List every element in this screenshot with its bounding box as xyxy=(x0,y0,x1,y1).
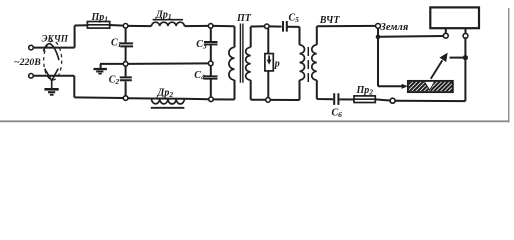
wire node to C5 xyxy=(269,25,282,27)
terminal bottom-left xyxy=(29,74,34,79)
box left terminal xyxy=(443,33,448,38)
inductor Dr2 xyxy=(152,98,185,100)
svg-text:Пр2: Пр2 xyxy=(356,85,374,97)
junction dot right xyxy=(463,55,468,60)
svg-text:С1: С1 xyxy=(111,38,121,50)
patient terminal xyxy=(390,98,395,103)
discharger lead bottom xyxy=(267,71,269,98)
shield dashed ellipse xyxy=(44,41,62,80)
svg-text:ВЧТ: ВЧТ xyxy=(319,15,341,26)
svg-text:ЭКЧП: ЭКЧП xyxy=(42,34,69,44)
electrode connector wire xyxy=(450,57,466,59)
svg-text:~220В: ~220В xyxy=(14,57,41,68)
svg-text:С6: С6 xyxy=(332,108,343,120)
white notch triangle edges xyxy=(425,82,435,90)
secondary bottom wire to VChT xyxy=(270,80,299,100)
box right terminal xyxy=(463,33,468,38)
bottom right bus xyxy=(395,38,465,101)
svg-text:С4: С4 xyxy=(194,70,205,82)
Zemlya stub down xyxy=(377,28,379,37)
wire junction to box left terminal xyxy=(378,35,443,38)
node top C3 xyxy=(208,24,213,29)
Dr1 core bar xyxy=(153,19,183,21)
ground mid xyxy=(94,68,107,75)
discharger r body xyxy=(265,54,273,71)
node bottom discharger xyxy=(266,98,271,103)
VChT secondary top lead / wire to Zemlya xyxy=(317,26,376,45)
PT core xyxy=(240,24,243,83)
twist crossing arc xyxy=(44,44,59,60)
VChT secondary winding xyxy=(312,45,317,80)
C4 capacitor xyxy=(210,66,212,76)
node bottom C4 xyxy=(209,97,214,102)
svg-text:Земля: Земля xyxy=(380,22,409,33)
wire junction down to electrode arm xyxy=(378,37,403,86)
mid wire C1C2 node to C3C4 node xyxy=(128,62,208,65)
wire node to Dr1 xyxy=(128,25,152,27)
inductor Dr1 xyxy=(152,22,185,26)
top bus left xyxy=(75,24,88,26)
capacitor C6 xyxy=(334,93,338,105)
PT secondary top lead xyxy=(251,26,265,47)
svg-text:Др1: Др1 xyxy=(155,10,172,22)
page edge lines xyxy=(508,8,510,123)
svg-text:р: р xyxy=(274,59,280,70)
node mid C1C2 xyxy=(123,62,128,67)
svg-text:ПТ: ПТ xyxy=(236,13,252,24)
VChT secondary bottom lead xyxy=(317,80,333,99)
fuse Pr1 xyxy=(87,22,109,29)
node top C1 xyxy=(123,24,128,29)
fuse Pr2 xyxy=(354,96,375,103)
mid wire to ground xyxy=(100,64,123,68)
arrowhead into electrode xyxy=(402,84,408,89)
C3 capacitor xyxy=(210,28,212,41)
node bottom C2 xyxy=(123,96,128,101)
wire C6 to Pr2 xyxy=(339,98,354,100)
VChT primary winding xyxy=(300,45,305,80)
apparatus box xyxy=(430,7,479,28)
transformer PT secondary winding xyxy=(246,47,251,80)
svg-text:Пр1: Пр1 xyxy=(91,12,109,24)
twist lower diagonals xyxy=(45,69,59,76)
electrode hatched block xyxy=(400,80,514,93)
wire top terminal to corner xyxy=(33,26,74,48)
node top discharger xyxy=(265,24,270,29)
C2 capacitor xyxy=(125,66,127,76)
discharger r lead top xyxy=(267,29,269,54)
transformer PT primary winding xyxy=(229,47,235,80)
discharger arrow xyxy=(268,55,270,60)
Dr2 core bar xyxy=(151,107,185,109)
wire Dr2 to node xyxy=(184,98,208,100)
wire C5 to VChT xyxy=(287,27,299,45)
PT secondary bottom lead xyxy=(251,80,266,100)
wire Pr2 to terminal xyxy=(375,99,390,100)
VChT core dashes xyxy=(307,47,309,82)
wire Dr1 to node xyxy=(184,25,208,27)
svg-text:Др2: Др2 xyxy=(157,88,174,100)
svg-text:С2: С2 xyxy=(109,75,120,87)
wire node to PT primary xyxy=(213,26,235,47)
wire bottom terminal to corner xyxy=(33,76,74,98)
adjustment arrow diagonal xyxy=(431,60,443,78)
svg-text:С3: С3 xyxy=(196,39,207,51)
ground under shield xyxy=(44,88,58,96)
wire fuse to node xyxy=(110,24,124,27)
bottom bus left xyxy=(74,96,123,99)
C1 capacitor xyxy=(125,28,127,42)
svg-text:С5: С5 xyxy=(289,13,300,25)
capacitor C5 xyxy=(283,21,287,32)
shield V to ground xyxy=(49,76,55,88)
Zemlya junction dot xyxy=(376,35,381,40)
Zemlya terminal xyxy=(376,24,381,29)
node mid C3C4 xyxy=(208,61,213,66)
terminal top-left xyxy=(29,45,34,50)
